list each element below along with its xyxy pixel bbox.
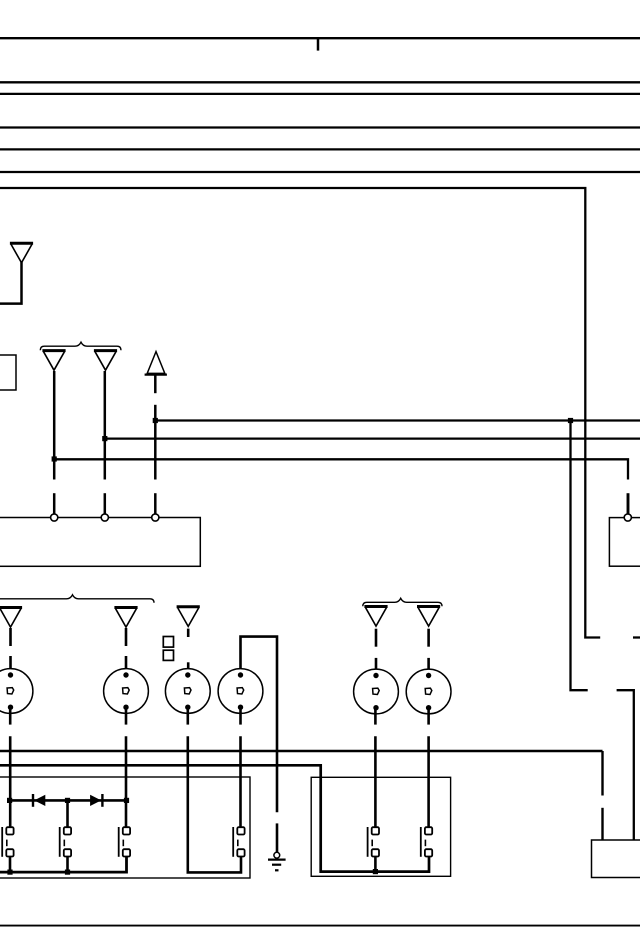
inline connector square upper (pin3) xyxy=(163,637,173,648)
motor pin 3 (triangle) xyxy=(177,607,200,627)
wire bus line 7 with corner down at right xyxy=(0,188,600,638)
wire bus line 1 (top) xyxy=(0,37,640,39)
wire diode bus xyxy=(10,799,127,802)
switch assembly box 2 xyxy=(311,777,450,876)
wire bus line 3 xyxy=(0,93,640,95)
dashed wire from pin D to junction xyxy=(154,374,157,393)
dashed wire below motor2 xyxy=(125,708,128,725)
wire switch return bus (bottom of box 1) xyxy=(0,857,127,873)
wire switch2 bottom stub xyxy=(66,857,69,873)
junction node M1-right xyxy=(568,418,573,423)
motor M4 xyxy=(218,669,263,714)
wire bus L2 wrap into switch box 2 xyxy=(0,765,429,871)
wire bus L1 (upper) xyxy=(0,750,603,752)
connector terminal circle 1 xyxy=(51,514,58,521)
wire bus M1 xyxy=(155,419,640,421)
junction node diode-left xyxy=(7,798,12,803)
motor pin 6 (triangle) xyxy=(417,607,440,627)
wire connector to motor3 xyxy=(187,662,190,675)
wire bus M3 with corner down at x=627.5 xyxy=(54,459,628,479)
dashed wire pin D column to connector xyxy=(154,421,157,480)
wire switch1 bottom stub xyxy=(9,857,12,873)
motor pin 1 (triangle) xyxy=(0,608,22,628)
component box (cut off at left edge) xyxy=(0,355,16,390)
connector box (left, cut off at page edge) xyxy=(0,518,200,567)
dashed wire pin2 to motor2 xyxy=(125,628,128,646)
wire motor2 to diode bus and switch 3 xyxy=(125,736,128,827)
wire from connector pin A to left edge xyxy=(0,262,22,304)
switch SW6 (door) xyxy=(421,827,432,857)
motor M2 xyxy=(104,669,149,714)
dashed wire pin5 to motor5 xyxy=(375,629,378,647)
dashed wire below motor4 xyxy=(239,708,242,725)
diode D1 (cathode left) xyxy=(33,794,45,807)
motor pin 2 (triangle) xyxy=(114,608,137,628)
wire pin3 stub xyxy=(187,629,190,637)
wire switch5 bottom stub xyxy=(374,857,377,872)
wire bus line 5 xyxy=(0,148,640,150)
wire motor1 to diode bus and switch 1 xyxy=(9,736,12,827)
brace over motor pins 1,2 xyxy=(0,595,154,603)
wire motor5 to switch 5 xyxy=(374,736,377,827)
wire motor4 to ground (dashed at bottom) xyxy=(241,637,278,813)
brace over connector pins B,C xyxy=(40,342,121,350)
junction node M3-left xyxy=(52,456,57,461)
wire connector bracket to relay box xyxy=(617,690,634,840)
motor M1 (window/lock motor, cut at left) xyxy=(0,669,33,714)
dashed wire pin1 to motor1 xyxy=(9,628,12,646)
wire bus line 4 xyxy=(0,126,640,128)
dashed wire bus L1 down to relay box xyxy=(601,751,603,796)
diode D2 (cathode right) xyxy=(90,794,102,807)
dashed wire below motor1 xyxy=(9,708,12,725)
switch SW5 (door) xyxy=(368,827,379,857)
wire motor4 to switch 4 xyxy=(239,736,242,827)
wire motor3 to switch 4 return xyxy=(188,736,241,872)
wire bus line 6 xyxy=(0,171,640,173)
dashed wire below motor5 xyxy=(374,708,377,725)
junction node return-2 xyxy=(65,870,70,875)
inline connector square lower (pin3) xyxy=(163,650,173,660)
junction node return-1 xyxy=(7,870,12,875)
dashed wire pin C column to connector xyxy=(104,439,107,480)
wire from junction M1-right down to connector bracket xyxy=(571,421,588,691)
wire connector dash at right edge y=638 xyxy=(633,636,640,638)
switch SW4 (door) xyxy=(233,827,244,857)
connector pin A (top left) xyxy=(10,243,33,263)
junction node diode-right xyxy=(124,798,129,803)
dashed wire pin6 to motor6 xyxy=(427,629,430,647)
wire from pin B down to junction xyxy=(53,371,56,459)
brace over motor pins 5,6 xyxy=(363,598,442,606)
wire stub below bus line 1 xyxy=(317,38,320,50)
junction node diode-mid xyxy=(65,798,70,803)
motor M6 xyxy=(406,669,451,714)
switch assembly box 1 (cut off at left) xyxy=(0,777,250,878)
dashed wire below motor6 xyxy=(427,708,430,725)
wire bottom border line xyxy=(0,925,640,927)
motor M5 xyxy=(354,669,399,714)
dashed wire below motor3 xyxy=(187,708,190,725)
motor M3 xyxy=(165,669,210,714)
connector terminal circle 3 xyxy=(152,514,159,521)
relay box (cut off at right) xyxy=(592,840,640,878)
connector pin D (open triangle) xyxy=(147,352,165,374)
connector pin C xyxy=(94,351,117,371)
connector terminal circle 2 xyxy=(101,514,108,521)
wire motor6 to switch 6 xyxy=(427,736,430,827)
motor pin 5 (triangle) xyxy=(364,607,387,627)
wire bus M2 xyxy=(105,437,640,439)
switch SW2 (door) xyxy=(60,827,71,857)
junction node M2-left xyxy=(102,436,107,441)
connector box (right, cut off at page edge) xyxy=(609,518,640,567)
wire bus line 2 xyxy=(0,81,640,83)
wire diode-mid to switch 2 xyxy=(66,800,69,827)
switch SW3 (door) xyxy=(119,827,130,857)
ground symbol xyxy=(268,852,286,870)
wire from pin C down to junction xyxy=(104,371,107,439)
dashed wire pin B column to connector xyxy=(53,459,56,480)
connector terminal circle 4 xyxy=(624,514,631,521)
junction node switch5-return xyxy=(373,869,378,874)
connector pin B xyxy=(42,351,65,371)
dashed wire down to right connector circle xyxy=(627,493,630,514)
switch SW1 (door) xyxy=(2,827,13,857)
junction node M1-left xyxy=(153,418,158,423)
